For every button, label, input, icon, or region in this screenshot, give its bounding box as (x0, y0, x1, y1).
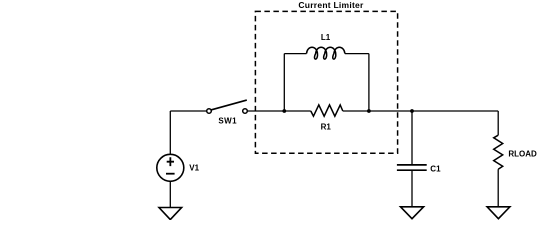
wire: V1 stem up to node (169, 111, 171, 154)
svg-text:V1: V1 (189, 164, 199, 173)
wire: right branch up (368, 54, 370, 111)
svg-text:Current Limiter: Current Limiter (298, 0, 364, 10)
wire: switch right contact to RLOAD corner (247, 110, 311, 112)
wire: left horizontal to switch (170, 110, 207, 112)
resistor RLOAD (494, 135, 503, 169)
voltage source V1 (157, 154, 184, 181)
wire: V1 bottom to ground (169, 181, 171, 207)
node right of parallel pair (367, 109, 371, 113)
wire: inductor right lead (345, 53, 369, 55)
wire: left branch up (283, 54, 285, 111)
wire: C1 bottom to ground (411, 171, 413, 207)
node left of parallel pair (282, 109, 286, 113)
inductor L1 (307, 47, 345, 59)
wire: after R1 to right corner (343, 110, 498, 112)
node at C1 tap (410, 109, 414, 113)
ground (RLOAD) (487, 207, 510, 219)
ground (V1) (159, 208, 182, 220)
svg-text:SW1: SW1 (218, 117, 237, 126)
wire: right drop to RLOAD (497, 111, 499, 135)
resistor R1 (311, 105, 343, 116)
svg-text:C1: C1 (430, 165, 441, 174)
wire: inductor left lead (284, 53, 306, 55)
switch SW1 (207, 100, 248, 113)
ground (C1) (401, 207, 424, 219)
dashed subcircuit box "Current Limiter" (255, 11, 397, 153)
svg-text:RLOAD: RLOAD (508, 149, 537, 158)
wire: RLOAD bottom to ground (497, 169, 499, 206)
svg-text:R1: R1 (321, 123, 332, 132)
svg-text:L1: L1 (321, 33, 331, 42)
capacitor C1 (397, 165, 427, 170)
wire: C1 stem (411, 111, 413, 164)
